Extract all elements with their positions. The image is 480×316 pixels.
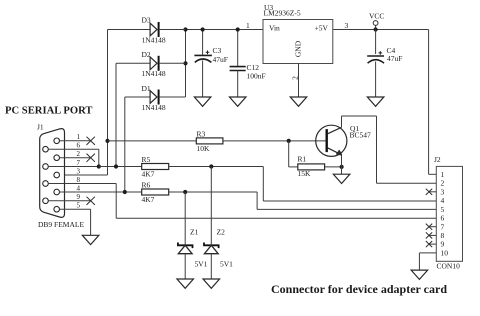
zener Z2 5V1 (204, 243, 219, 249)
resistor R1 15K (298, 164, 325, 170)
svg-text:2: 2 (77, 150, 81, 158)
wire D1 cathode (159, 96, 186, 98)
wire R1 to emitter (325, 166, 342, 168)
wire R5 step down (262, 167, 264, 202)
svg-text:2: 2 (441, 179, 445, 188)
no-connect X J2 pin9 (426, 241, 432, 247)
junction Z2 tap (209, 164, 213, 168)
svg-text:BC547: BC547 (350, 131, 372, 140)
junction R1/emitter (340, 165, 344, 169)
svg-text:1: 1 (441, 170, 445, 179)
wire to R1 (289, 166, 298, 168)
wire top rail right (node VCC) (333, 29, 429, 31)
svg-text:+5V: +5V (315, 24, 329, 33)
zener Z1 5V1 (178, 243, 193, 249)
wire J1 pin2 stub (60, 157, 91, 159)
wire collector top (342, 115, 377, 117)
svg-text:4: 4 (441, 196, 445, 205)
svg-text:Vin: Vin (269, 24, 280, 33)
svg-text:LM2936Z-5: LM2936Z-5 (264, 9, 301, 18)
resistor R3 10K (196, 138, 223, 144)
wire pin8 vertical down (115, 184, 117, 219)
svg-text:VCC: VCC (369, 12, 384, 21)
svg-text:4K7: 4K7 (142, 195, 155, 204)
no-connect X J2 pin7 (426, 224, 432, 230)
wire J1 pin7 stub (48, 166, 99, 168)
wire R6 step down (256, 192, 258, 209)
wire Z2 bottom (210, 254, 212, 279)
svg-text:4: 4 (77, 184, 81, 192)
junction VCC/rail (374, 27, 378, 31)
C4 plus (379, 51, 383, 55)
wire top rail left (node VIN) (159, 29, 263, 31)
ground Q1 emitter (333, 174, 350, 183)
wire D3 cathode (159, 29, 186, 31)
wire collector up (341, 116, 343, 127)
wire pin8 row to J2 pin6 (116, 217, 436, 219)
wire D3 anode (108, 29, 151, 31)
wire D2 cathode (159, 62, 186, 64)
connector J1 DB9 female outline (40, 129, 65, 218)
connector J2 CON10 box (436, 166, 462, 261)
resistor R5 4K7 (142, 164, 169, 170)
svg-text:R5: R5 (142, 155, 151, 164)
svg-text:6: 6 (441, 214, 445, 223)
wire Z1 bottom (184, 254, 186, 279)
wire C3 bottom (202, 61, 204, 98)
ground Z2 (203, 279, 220, 288)
svg-text:1: 1 (77, 133, 81, 141)
wire C4 top (375, 30, 377, 55)
wire row to J2 pin5 (257, 208, 436, 210)
svg-text:R1: R1 (298, 155, 307, 164)
wire C12 top (237, 30, 239, 67)
junction C12/top-rail (236, 27, 240, 31)
wire vertical D1-anode to R6 node (124, 97, 126, 192)
wire R5 right (169, 166, 264, 168)
svg-text:3: 3 (345, 21, 349, 30)
svg-text:5: 5 (77, 202, 81, 210)
wire pin7 node to R5 (99, 166, 142, 168)
svg-text:1N4148: 1N4148 (142, 69, 166, 78)
diode D1 1N4148 (150, 91, 157, 104)
wire C3 top (202, 30, 204, 56)
wire U3 GND pin (298, 64, 300, 98)
diode D2 1N4148 (150, 57, 157, 70)
J1 pin 2 circle (54, 155, 60, 161)
svg-text:3: 3 (441, 187, 445, 196)
svg-text:10: 10 (441, 249, 449, 258)
wire J1 pin5 stub (60, 208, 91, 210)
svg-text:5V1: 5V1 (195, 260, 208, 269)
svg-text:Z1: Z1 (190, 228, 199, 237)
wire J1 pin4 to R6 (60, 191, 142, 193)
op-amp U3 LM2936Z-5 regulator box (263, 20, 333, 64)
junction D1-vertical/R6 row (123, 190, 127, 194)
wire vertical D3-anode to pin3 (107, 30, 109, 176)
svg-text:8: 8 (77, 176, 81, 184)
wire D1 anode (125, 96, 150, 98)
no-connect X J2 pin8 (426, 232, 432, 238)
svg-text:47uF: 47uF (213, 55, 228, 64)
no-connect X pin2 (87, 154, 95, 162)
no-connect X J2 pin3 (426, 189, 432, 195)
wire J2 pin1 stub (429, 173, 437, 175)
wire J2 pin10 stub (419, 252, 436, 254)
svg-text:1: 1 (246, 21, 250, 30)
ground J2 pin10 (411, 270, 428, 279)
ground U3 (290, 97, 307, 106)
wire collector row to J2 pin2 (377, 182, 437, 184)
ground C3 (194, 97, 211, 106)
svg-text:C3: C3 (213, 46, 222, 55)
J1 pin 6 circle (43, 146, 49, 152)
no-connect X pin1 (87, 137, 95, 145)
svg-text:10K: 10K (197, 144, 211, 153)
J1 pin 4 circle (54, 189, 60, 195)
J1 pin 8 circle (43, 181, 49, 187)
J1 pin 7 circle (43, 164, 49, 170)
J1 pin 9 circle (43, 198, 49, 204)
svg-text:7: 7 (441, 222, 445, 231)
C3 plus (206, 51, 210, 55)
svg-text:5: 5 (441, 205, 445, 214)
Q1 collector (328, 127, 342, 134)
svg-text:3: 3 (77, 167, 81, 175)
svg-text:Z2: Z2 (217, 228, 226, 237)
junction bus/D2 (183, 61, 187, 65)
junction C3/top-rail (201, 27, 205, 31)
wire row to J2 pin4 (263, 200, 436, 202)
svg-text:4K7: 4K7 (142, 170, 155, 179)
junction D2-vertical/R5 row (114, 164, 118, 168)
ground C12 (229, 97, 246, 106)
transistor Q1 BC547 (316, 125, 347, 156)
wire emitter down (341, 155, 343, 174)
resistor R6 4K7 (142, 189, 169, 195)
wire J1 pin1 stub (60, 140, 91, 142)
wire J2 pin8 stub (429, 234, 436, 236)
junction bus/top-rail (183, 27, 187, 31)
svg-text:CON10: CON10 (437, 262, 461, 271)
svg-text:5V1: 5V1 (220, 260, 233, 269)
wire J1 pin8 stub (48, 183, 116, 185)
junction R3 tap (105, 139, 109, 143)
wire R6 right (169, 191, 257, 193)
junction Z1 tap (183, 190, 187, 194)
junction R1 tap (287, 139, 291, 143)
wire pin3-node to R3 (108, 140, 197, 142)
wire J2 pin7 stub (429, 226, 436, 228)
svg-text:47uF: 47uF (387, 54, 402, 63)
svg-text:PC SERIAL PORT: PC SERIAL PORT (5, 105, 93, 117)
J1 pin 5 circle (54, 206, 60, 212)
wire VCC drop to J2 pin1 (428, 30, 430, 175)
wire pin6 down to pin7 node (98, 149, 100, 166)
wire pin10 down (418, 253, 420, 270)
ground C4 (367, 97, 384, 106)
wire C4 bottom (375, 62, 377, 98)
wire vertical D2-anode to R5 node (115, 63, 117, 166)
svg-text:1N4148: 1N4148 (142, 36, 166, 45)
wire pin5 down to ground (90, 209, 92, 235)
wire D2 anode (116, 62, 150, 64)
J1 pin 3 circle (54, 172, 60, 178)
wire J2 pin3 stub (429, 191, 436, 193)
ground Z1 (177, 279, 194, 288)
diode D3 1N4148 (150, 23, 157, 36)
svg-text:7: 7 (77, 159, 81, 167)
no-connect X pin9 (87, 197, 95, 205)
svg-text:J2: J2 (434, 155, 441, 164)
svg-text:R6: R6 (142, 181, 151, 190)
svg-text:J1: J1 (37, 123, 44, 132)
wire diode cathode bus (185, 30, 187, 98)
wire J1 pin6 stub (48, 148, 99, 150)
J1 pin 1 circle (54, 138, 60, 144)
svg-text:DB9 FEMALE: DB9 FEMALE (38, 220, 84, 229)
svg-text:Connector for device adapter c: Connector for device adapter card (271, 282, 447, 296)
wire J2 pin9 stub (429, 243, 436, 245)
wire VCC stub (375, 25, 377, 29)
svg-text:8: 8 (441, 231, 445, 240)
Q1 emitter with arrow (328, 148, 342, 155)
wire R3 to Q1 base (223, 140, 326, 142)
wire Z2 top (210, 167, 212, 246)
ground J1 pin5 (82, 235, 99, 244)
junction pin6/pin7 (97, 164, 101, 168)
svg-text:6: 6 (77, 142, 81, 150)
wire collector down (376, 116, 378, 183)
wire J1 pin9 stub (48, 200, 90, 202)
wire pin3 to vertical (60, 174, 108, 176)
svg-text:9: 9 (77, 193, 81, 201)
wire C12 bottom (237, 71, 239, 98)
wire Z1 top (184, 192, 186, 245)
svg-text:9: 9 (441, 240, 445, 249)
svg-text:1N4148: 1N4148 (142, 103, 166, 112)
wire R1 left vertical (288, 141, 290, 167)
svg-text:100nF: 100nF (247, 72, 266, 81)
svg-text:R3: R3 (197, 130, 206, 139)
svg-text:GND: GND (294, 40, 303, 57)
